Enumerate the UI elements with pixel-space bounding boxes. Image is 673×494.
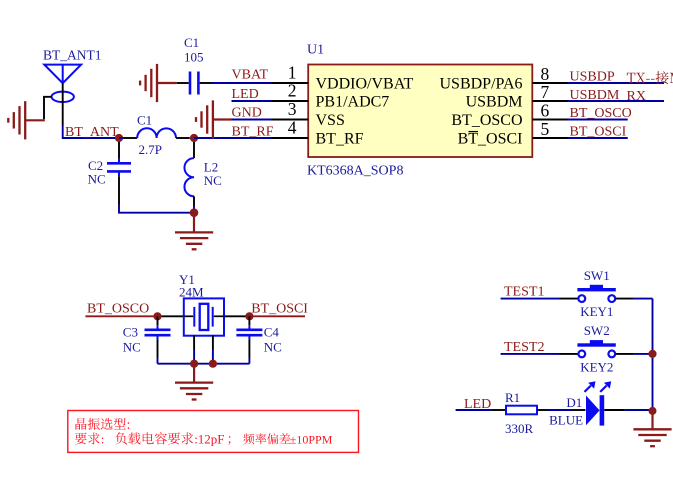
svg-text:NC: NC: [264, 340, 282, 355]
value L2 NC: [204, 160, 222, 189]
wire C2 bottom to junction C: [119, 205, 194, 213]
inductor L2: [184, 142, 194, 213]
wire USBDP net: [568, 82, 664, 84]
wire BT_OSCI from crystal: [249, 315, 305, 317]
wire D1 to bus: [604, 409, 652, 411]
net label TX--接M: [627, 71, 673, 84]
svg-text:C4: C4: [264, 325, 280, 340]
wire BT_OSCI net: [568, 137, 628, 139]
wire crystal to junction E: [225, 315, 250, 317]
junction C: [190, 208, 199, 217]
svg-text:TEST1: TEST1: [504, 285, 544, 300]
wire right bus vertical: [652, 299, 654, 411]
svg-text:BT_RF: BT_RF: [232, 125, 274, 140]
svg-text:SW1: SW1: [584, 268, 610, 283]
svg-text:VSS: VSS: [316, 112, 345, 129]
wire crystal gnd pin right: [212, 336, 214, 364]
svg-text:USBDM: USBDM: [466, 93, 523, 110]
pin name BT_OSCI: [458, 130, 523, 147]
pin 6 stub: [532, 119, 568, 121]
svg-text:105: 105: [184, 49, 204, 64]
svg-text:NC: NC: [123, 340, 141, 355]
wire C1 to junction B: [176, 137, 190, 139]
capacitor C1 (series 2.7P): [137, 128, 176, 138]
capacitor C4: [236, 316, 262, 363]
junction F: [190, 360, 198, 368]
crystal Y1: [184, 298, 224, 335]
svg-text:GND: GND: [232, 106, 262, 121]
switch SW2: [577, 340, 615, 357]
pin 3 stub: [272, 119, 309, 121]
svg-text:VDDIO/VBAT: VDDIO/VBAT: [316, 75, 414, 92]
wire TEST2 net: [501, 353, 578, 355]
designator Y1: [179, 272, 204, 300]
junction BT_ANT A: [115, 134, 123, 142]
svg-text:BT_OSCO: BT_OSCO: [87, 302, 149, 317]
wire USBDM net: [568, 100, 664, 102]
pin 5 stub: [532, 137, 568, 139]
svg-text:PB1/ADC7: PB1/ADC7: [316, 93, 390, 110]
wire GND net: [232, 119, 272, 121]
wire ground to C1: [177, 82, 189, 84]
svg-text:330R: 330R: [505, 421, 534, 436]
wire BT_OSCO to crystal: [85, 315, 183, 317]
LED D1: [585, 381, 612, 425]
wire junction A to C1: [119, 137, 137, 139]
svg-text:USBDM: USBDM: [570, 88, 620, 103]
svg-text:3: 3: [288, 99, 297, 119]
svg-text:8: 8: [541, 64, 550, 84]
pin 1 stub: [272, 82, 309, 84]
svg-text:5: 5: [541, 119, 550, 139]
junction I: [649, 407, 657, 415]
pin 2 stub: [272, 100, 309, 102]
wire LED net right: [456, 409, 506, 411]
svg-text:KEY2: KEY2: [580, 359, 613, 374]
wire crystal gnd pin left: [193, 336, 195, 364]
wire R1 to D1: [537, 409, 585, 411]
wire LED net: [232, 100, 272, 102]
wire TEST1 net: [501, 298, 578, 300]
svg-text:C1: C1: [184, 35, 199, 50]
svg-text:BT_OSCI: BT_OSCI: [251, 302, 308, 317]
wire SW1 to bus: [616, 298, 653, 300]
junction E: [245, 312, 253, 320]
ground at GND pin (rotated): [196, 100, 232, 138]
svg-text:C1: C1: [137, 113, 152, 128]
svg-text:±10PPM: ±10PPM: [290, 432, 333, 446]
svg-text:BT_OSCI: BT_OSCI: [570, 125, 627, 140]
value C1 label: [137, 113, 162, 158]
ground below L2: [175, 217, 213, 250]
svg-text:RX: RX: [627, 89, 646, 104]
note text line2: [75, 431, 333, 446]
wire antenna stem: [62, 83, 64, 125]
ground crystal: [175, 368, 213, 400]
svg-text:VBAT: VBAT: [232, 68, 269, 83]
svg-text:BT_OSCI: BT_OSCI: [458, 130, 523, 147]
svg-text:KT6368A_SOP8: KT6368A_SOP8: [307, 164, 403, 179]
svg-text:7: 7: [541, 82, 550, 102]
svg-text:NC: NC: [204, 173, 222, 188]
svg-text:TEST2: TEST2: [504, 340, 544, 355]
svg-text:BT_RF: BT_RF: [316, 130, 364, 147]
svg-text:U1: U1: [307, 43, 324, 58]
ground antenna (rotated): [8, 101, 45, 139]
svg-text:SW2: SW2: [584, 323, 610, 338]
svg-text:BT_OSCO: BT_OSCO: [451, 112, 522, 129]
svg-text:D1: D1: [566, 395, 582, 410]
junction H: [648, 350, 656, 358]
note box: [68, 411, 359, 453]
wire BT_RF net: [194, 137, 272, 139]
svg-text:LED: LED: [232, 87, 259, 102]
switch SW1: [577, 285, 615, 302]
wire BT_OSCO net: [568, 119, 628, 121]
svg-text:BT_OSCO: BT_OSCO: [570, 106, 632, 121]
svg-text:NC: NC: [88, 172, 106, 187]
value C1 105: [184, 35, 204, 64]
svg-text::12pF: :12pF: [194, 431, 224, 446]
op-amp U1 body KT6368A_SOP8: [308, 65, 532, 158]
wire to antenna ground: [44, 97, 52, 119]
svg-text:2.7P: 2.7P: [139, 142, 162, 157]
pin 4 stub: [272, 137, 309, 139]
pin 7 stub: [532, 100, 568, 102]
junction B: [190, 134, 198, 142]
svg-text:4: 4: [288, 118, 297, 138]
svg-text::: :: [101, 431, 105, 446]
wire C1 to VBAT: [200, 82, 272, 84]
antenna BT_ANT1: [44, 65, 81, 102]
capacitor C2: [107, 142, 131, 205]
ground at C1-105 (rotated): [140, 64, 177, 102]
svg-text:KEY1: KEY1: [580, 304, 613, 319]
svg-text:BLUE: BLUE: [549, 413, 583, 428]
junction D: [153, 312, 161, 320]
resistor R1: [506, 406, 537, 415]
capacitor C3: [145, 316, 171, 363]
note text line1: [76, 418, 130, 430]
value C2 NC: [88, 158, 106, 187]
wire BT_ANT vertical: [63, 126, 119, 139]
svg-text:USBDP: USBDP: [570, 70, 615, 85]
svg-text:C3: C3: [123, 325, 138, 340]
wire crystal ground rail: [158, 363, 250, 365]
svg-text:24M: 24M: [179, 285, 204, 300]
value C4 NC: [264, 325, 282, 355]
capacitor C1 105: [190, 72, 198, 95]
pin 8 stub: [532, 82, 568, 84]
value C3 NC: [123, 325, 141, 355]
svg-text:1: 1: [288, 63, 297, 83]
junction G: [209, 360, 217, 368]
svg-text:BT_ANT: BT_ANT: [65, 125, 119, 140]
ground LED branch: [633, 415, 671, 447]
svg-text:BT_ANT1: BT_ANT1: [43, 48, 102, 63]
wire SW2 to bus: [616, 353, 653, 355]
svg-text:R1: R1: [505, 390, 520, 405]
svg-text:2: 2: [288, 81, 297, 101]
svg-text:USBDP/PA6: USBDP/PA6: [439, 75, 522, 92]
svg-text:6: 6: [541, 101, 550, 121]
